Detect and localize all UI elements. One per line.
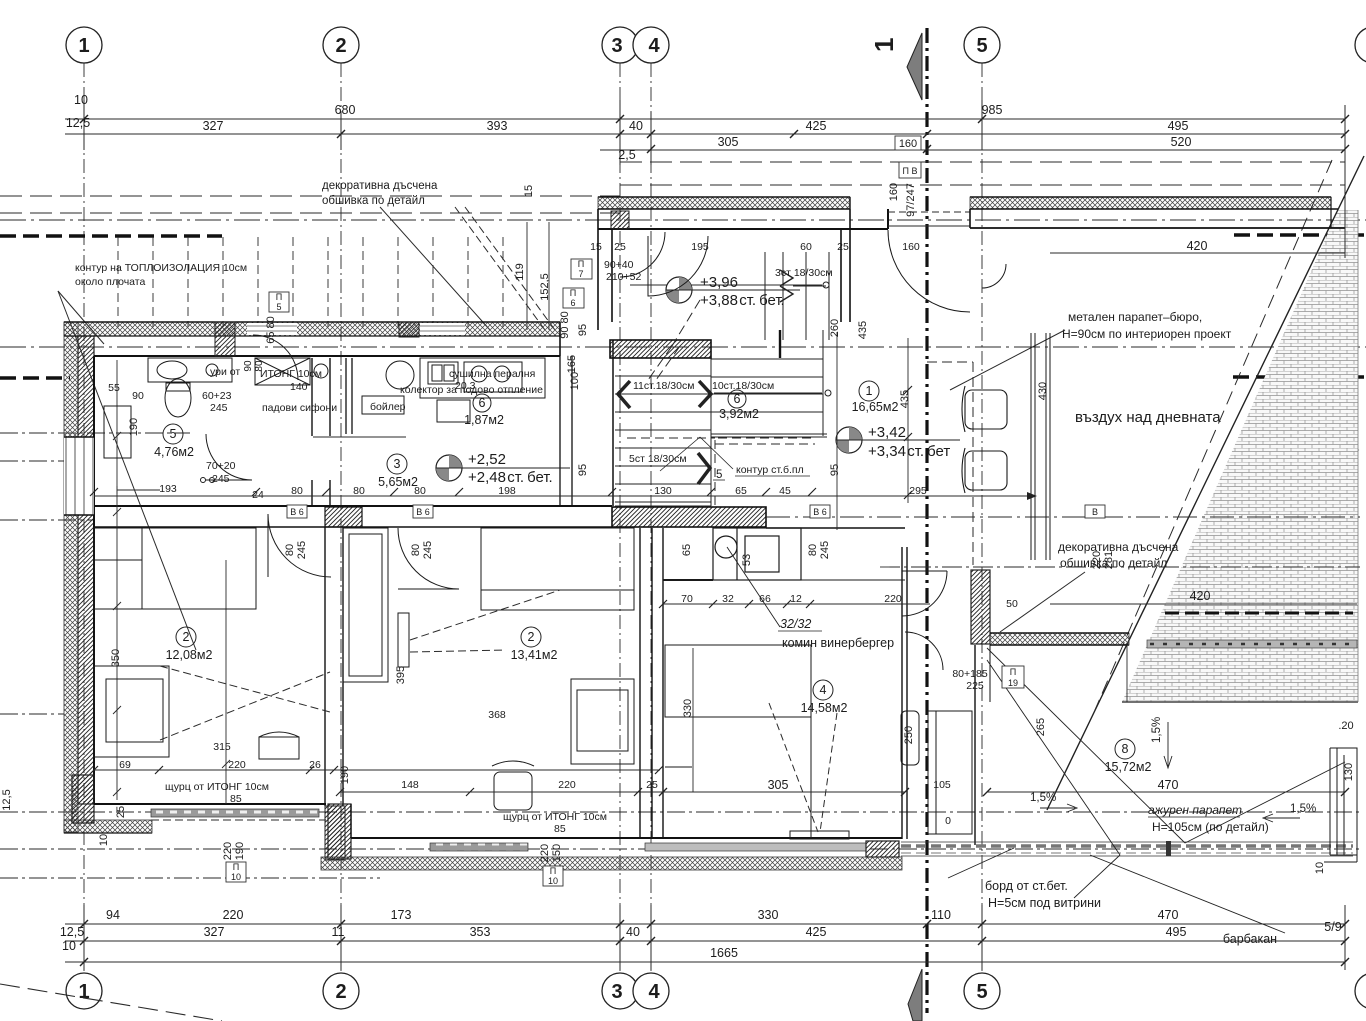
svg-text:ури от: ури от — [210, 366, 240, 378]
svg-text:350: 350 — [110, 649, 122, 667]
top-left annotation: контур на ТОПЛОИЗОЛАЦИЯ — [75, 262, 247, 288]
svg-text:430: 430 — [1037, 382, 1049, 400]
svg-text:245: 245 — [210, 402, 228, 414]
svg-text:50: 50 — [1006, 598, 1018, 610]
svg-text:470: 470 — [1158, 778, 1179, 792]
svg-text:11: 11 — [332, 925, 345, 939]
svg-text:105: 105 — [933, 779, 951, 791]
svg-text:80: 80 — [807, 544, 819, 556]
svg-text:70+20: 70+20 — [206, 460, 236, 472]
extra small bits — [243, 360, 265, 372]
svg-text:1: 1 — [78, 35, 89, 57]
left inner dim line — [113, 360, 230, 804]
svg-text:245: 245 — [212, 473, 230, 485]
305 dim room4 — [663, 791, 905, 793]
svg-text:60: 60 — [800, 241, 812, 253]
outdoor element right of section — [901, 711, 972, 834]
svg-text:декоративна дъсчена: декоративна дъсчена — [322, 180, 438, 192]
right top wall band — [970, 197, 1331, 209]
svg-text:395: 395 — [395, 666, 407, 684]
svg-text:245: 245 — [422, 541, 434, 559]
svg-text:ИТОНГ 10см: ИТОНГ 10см — [260, 368, 322, 380]
svg-text:16,65м2: 16,65м2 — [852, 400, 899, 414]
svg-text:32: 32 — [722, 593, 734, 605]
svg-text:П: П — [1010, 667, 1016, 677]
svg-text:комин винербергер: комин винербергер — [782, 636, 894, 650]
svg-text:3: 3 — [394, 457, 401, 471]
kitchenette/stair walls — [560, 356, 572, 506]
svg-text:около плочата: около плочата — [75, 276, 145, 288]
small П boxes — [226, 162, 1105, 886]
svg-text:25: 25 — [837, 241, 849, 253]
svg-text:падови сифони: падови сифони — [262, 402, 337, 414]
svg-text:щурц от ИТОНГ 10см: щурц от ИТОНГ 10см — [165, 781, 269, 793]
svg-text:65: 65 — [681, 544, 693, 556]
svg-text:+2,52: +2,52 — [468, 451, 506, 468]
svg-text:12: 12 — [790, 593, 802, 605]
1,5% marks — [1030, 717, 1316, 815]
svg-text:П: П — [276, 292, 282, 302]
svg-text:220: 220 — [223, 908, 244, 922]
thick dashed slab edge segments — [0, 235, 1364, 378]
svg-text:10: 10 — [548, 876, 558, 886]
svg-text:95: 95 — [577, 464, 589, 476]
svg-text:140: 140 — [290, 381, 308, 393]
svg-text:495: 495 — [1168, 119, 1189, 133]
svg-text:5: 5 — [976, 981, 987, 1003]
svg-text:П: П — [570, 288, 576, 298]
svg-text:295: 295 — [909, 485, 927, 497]
svg-text:225: 225 — [966, 680, 984, 692]
svg-text:борд от ст.бет.: борд от ст.бет. — [985, 879, 1068, 893]
svg-text:5ст 18/30см: 5ст 18/30см — [629, 453, 687, 465]
svg-text:173: 173 — [391, 908, 412, 922]
svg-text:+3,96: +3,96 — [700, 274, 738, 291]
svg-text:150: 150 — [551, 844, 563, 862]
svg-text:305: 305 — [718, 135, 739, 149]
svg-text:10: 10 — [231, 872, 241, 882]
svg-text:265: 265 — [1035, 718, 1047, 736]
left part — [64, 820, 152, 833]
svg-text:Н=105см (по детайл): Н=105см (по детайл) — [1152, 820, 1269, 834]
gray band right of parapet — [1147, 640, 1357, 648]
svg-text:220: 220 — [222, 842, 234, 860]
svg-text:+3,42: +3,42 — [868, 424, 906, 441]
svg-text:425: 425 — [806, 925, 827, 939]
svg-text:метален парапет–бюро,: метален парапет–бюро, — [1068, 310, 1202, 324]
svg-text:2: 2 — [335, 981, 346, 1003]
svg-text:190: 190 — [128, 418, 140, 436]
bottom-left dashed diagonal — [0, 984, 222, 1021]
svg-text:90 80: 90 80 — [559, 311, 571, 339]
svg-text:353: 353 — [470, 925, 491, 939]
svg-text:327: 327 — [203, 119, 224, 133]
svg-text:80+185: 80+185 — [952, 668, 987, 680]
svg-text:4,76м2: 4,76м2 — [154, 445, 194, 459]
room4 / entry wall — [902, 547, 907, 839]
svg-text:4: 4 — [820, 683, 827, 697]
svg-text:В: В — [1092, 507, 1098, 517]
svg-text:393: 393 — [487, 119, 508, 133]
svg-text:190: 190 — [339, 766, 351, 784]
bath right wall — [312, 358, 330, 506]
axis circles bottom — [66, 973, 1366, 1009]
svg-text:245: 245 — [819, 541, 831, 559]
svg-text:520: 520 — [1171, 135, 1192, 149]
svg-text:колектор за подово отпление: колектор за подово отпление — [400, 384, 543, 396]
rooms 2/3 separating wall — [325, 527, 343, 806]
svg-text:1: 1 — [78, 981, 89, 1003]
kitchenette row (1,87m2) — [420, 358, 545, 422]
svg-text:П В: П В — [903, 166, 918, 176]
middle-bottom wall — [351, 837, 902, 839]
svg-text:25: 25 — [115, 806, 127, 818]
hatched band under stairs — [610, 340, 711, 358]
svg-text:165: 165 — [566, 355, 578, 373]
svg-text:470: 470 — [1158, 908, 1179, 922]
svg-text:Н=5см под витрини: Н=5см под витрини — [988, 896, 1101, 910]
svg-text:Н=90см по интериорен проект: Н=90см по интериорен проект — [1062, 327, 1232, 341]
svg-text:4: 4 — [648, 35, 660, 57]
svg-text:25: 25 — [646, 779, 658, 791]
svg-text:5/9: 5/9 — [1324, 920, 1341, 934]
svg-text:190: 190 — [234, 842, 246, 860]
svg-text:5: 5 — [276, 302, 281, 312]
svg-text:3,92м2: 3,92м2 — [719, 407, 759, 421]
svg-text:160: 160 — [899, 138, 917, 150]
svg-text:97/247: 97/247 — [905, 183, 917, 217]
svg-text:90: 90 — [132, 390, 144, 402]
svg-text:11ст.18/30см: 11ст.18/30см — [633, 380, 694, 392]
svg-text:69: 69 — [119, 759, 131, 771]
svg-text:220: 220 — [228, 759, 246, 771]
svg-text:П: П — [550, 866, 556, 876]
svg-text:10: 10 — [98, 834, 110, 846]
svg-text:210+52: 210+52 — [606, 271, 641, 283]
svg-text:80: 80 — [254, 360, 265, 372]
svg-text:П: П — [578, 259, 584, 269]
svg-text:13,41м2: 13,41м2 — [511, 648, 558, 662]
right annotation: декоративна дъсчена (lower) — [1058, 540, 1179, 570]
svg-text:1,5%: 1,5% — [1290, 803, 1316, 815]
svg-text:495: 495 — [1166, 925, 1187, 939]
svg-text:декоративна дъсчена: декоративна дъсчена — [1058, 540, 1179, 554]
svg-text:195: 195 — [691, 241, 709, 253]
svg-text:305: 305 — [768, 778, 789, 792]
svg-text:281: 281 — [1103, 551, 1115, 569]
svg-text:2: 2 — [183, 630, 190, 644]
svg-text:5,65м2: 5,65м2 — [378, 475, 418, 489]
svg-text:барбакан: барбакан — [1223, 932, 1277, 946]
svg-text:160: 160 — [902, 241, 920, 253]
420 dim right top — [1050, 252, 1345, 254]
svg-text:100: 100 — [569, 372, 581, 390]
svg-text:5: 5 — [170, 427, 177, 441]
svg-text:0: 0 — [945, 815, 951, 827]
svg-text:80: 80 — [414, 485, 426, 497]
misc vertical dim lines — [94, 222, 1037, 500]
right steps — [1324, 748, 1357, 862]
stairwell top band — [598, 197, 850, 209]
svg-text:148: 148 — [401, 779, 419, 791]
svg-text:330: 330 — [758, 908, 779, 922]
svg-text:6: 6 — [570, 298, 575, 308]
stair texts — [629, 267, 833, 476]
section cut line — [925, 28, 928, 1013]
svg-text:220: 220 — [539, 844, 551, 862]
svg-text:260: 260 — [829, 319, 841, 337]
160 box top — [895, 136, 921, 150]
svg-text:24: 24 — [252, 489, 264, 501]
svg-text:40: 40 — [626, 925, 640, 939]
svg-text:10: 10 — [1314, 862, 1326, 874]
svg-text:25: 25 — [614, 241, 626, 253]
svg-text:80: 80 — [410, 544, 422, 556]
svg-text:.20: .20 — [1338, 720, 1353, 732]
svg-text:90+40: 90+40 — [604, 259, 634, 271]
svg-text:10: 10 — [74, 93, 88, 107]
svg-text:55: 55 — [108, 382, 120, 394]
svg-text:15: 15 — [590, 241, 602, 253]
diag leader through stairs — [648, 346, 672, 380]
svg-text:119: 119 — [514, 263, 526, 281]
svg-text:+3,34 ст. бет: +3,34 ст. бет — [868, 443, 950, 460]
svg-text:19: 19 — [1008, 678, 1018, 688]
svg-text:95: 95 — [577, 324, 589, 336]
rotated small dims — [1, 183, 1355, 874]
svg-text:щурц от ИТОНГ 10см: щурц от ИТОНГ 10см — [503, 811, 607, 823]
svg-text:220: 220 — [558, 779, 576, 791]
svg-text:2: 2 — [335, 35, 346, 57]
section arrow bottom — [908, 969, 922, 1021]
svg-text:15: 15 — [523, 185, 535, 197]
svg-text:198: 198 — [498, 485, 516, 497]
svg-text:330: 330 — [682, 699, 694, 717]
svg-text:160: 160 — [888, 183, 900, 201]
insulation contour dashed vertical stubs — [118, 237, 503, 327]
svg-text:П: П — [233, 862, 239, 872]
svg-text:10ст.18/30см: 10ст.18/30см — [712, 380, 774, 392]
svg-text:65: 65 — [735, 485, 747, 497]
svg-text:контур на ТОПЛОИЗОЛАЦИЯ 10см: контур на ТОПЛОИЗОЛАЦИЯ 10см — [75, 262, 247, 274]
svg-text:6: 6 — [734, 392, 741, 406]
svg-text:85: 85 — [554, 823, 566, 835]
svg-text:80: 80 — [291, 485, 303, 497]
stairwell left wall — [598, 209, 612, 330]
svg-text:12,08м2: 12,08м2 — [166, 648, 213, 662]
svg-text:14,58м2: 14,58м2 — [801, 701, 848, 715]
svg-text:В 6: В 6 — [290, 507, 304, 517]
svg-text:60+23: 60+23 — [202, 390, 232, 402]
svg-text:7: 7 — [578, 269, 583, 279]
svg-text:1: 1 — [866, 384, 873, 398]
svg-text:95: 95 — [829, 464, 841, 476]
svg-text:245: 245 — [296, 541, 308, 559]
svg-text:12,5: 12,5 — [60, 925, 84, 939]
svg-text:+3,88 ст. бет.: +3,88 ст. бет. — [700, 292, 785, 309]
svg-text:3: 3 — [611, 35, 622, 57]
top-left annotation: декоративна дъсчена обшивка — [322, 180, 438, 207]
svg-text:В 6: В 6 — [813, 507, 827, 517]
svg-text:+2,48 ст. бет.: +2,48 ст. бет. — [468, 469, 553, 486]
svg-text:1,5%: 1,5% — [1151, 717, 1163, 743]
svg-text:бойлер: бойлер — [370, 401, 406, 413]
svg-text:въздух над дневната: въздух над дневната — [1075, 409, 1221, 426]
svg-text:425: 425 — [806, 119, 827, 133]
right annotation: метален парапет — [1062, 310, 1232, 341]
svg-text:315: 315 — [213, 741, 231, 753]
svg-text:420: 420 — [1190, 589, 1211, 603]
svg-text:45: 45 — [779, 485, 791, 497]
svg-text:220: 220 — [1091, 551, 1103, 569]
svg-text:1,5%: 1,5% — [1030, 792, 1056, 804]
hatched block at window jamb — [215, 322, 235, 356]
svg-text:90: 90 — [243, 360, 254, 372]
svg-text:4: 4 — [648, 981, 660, 1003]
470 dim on terrace — [987, 791, 1345, 793]
svg-text:110: 110 — [931, 908, 951, 922]
bottom window dim lines — [94, 769, 660, 771]
svg-text:2: 2 — [528, 630, 535, 644]
svg-text:5: 5 — [716, 469, 722, 481]
svg-text:1: 1 — [869, 38, 899, 52]
svg-text:70: 70 — [681, 593, 693, 605]
svg-text:3: 3 — [611, 981, 622, 1003]
terrace leaders — [948, 648, 1345, 933]
svg-text:40: 40 — [629, 119, 643, 133]
left margin dash-dot stubs — [0, 433, 1360, 878]
svg-text:420: 420 — [1187, 239, 1208, 253]
dashed slab contour in living — [715, 438, 815, 505]
step block — [328, 804, 351, 859]
svg-text:В 6: В 6 — [416, 507, 430, 517]
svg-text:80: 80 — [353, 485, 365, 497]
dim line across rooms mid — [90, 488, 816, 496]
top wall band (left part) — [64, 322, 560, 336]
svg-text:66: 66 — [759, 593, 771, 605]
stairwell right wall — [841, 209, 850, 322]
svg-text:368: 368 — [488, 709, 506, 721]
rooms 3/4 separating wall — [640, 528, 663, 838]
svg-text:3ст 18/30см: 3ст 18/30см — [775, 267, 833, 279]
svg-text:435: 435 — [857, 321, 869, 339]
svg-text:130: 130 — [654, 485, 672, 497]
svg-text:80: 80 — [284, 544, 296, 556]
svg-text:1665: 1665 — [710, 946, 738, 960]
svg-text:250: 250 — [903, 726, 915, 744]
boiler partition — [346, 358, 352, 434]
glazing to terrace (axis5) — [1031, 333, 1050, 560]
svg-text:сушилна пералня: сушилна пералня — [449, 368, 535, 380]
stair arrows (chevrons) — [618, 381, 630, 408]
svg-text:130: 130 — [1343, 763, 1355, 781]
axis circles top — [66, 27, 1366, 63]
svg-text:220: 220 — [884, 593, 902, 605]
svg-text:85: 85 — [230, 793, 242, 805]
svg-text:контур ст.б.пл: контур ст.б.пл — [736, 464, 804, 476]
bathroom window in left wall — [64, 437, 94, 515]
entry door gap lines (x 888-970) — [888, 211, 970, 213]
svg-text:2,5: 2,5 — [618, 148, 635, 162]
svg-text:15,72м2: 15,72м2 — [1105, 760, 1152, 774]
svg-text:680: 680 — [335, 103, 356, 117]
svg-text:ажурен парапет: ажурен парапет — [1148, 803, 1242, 817]
svg-text:10: 10 — [62, 939, 76, 953]
svg-text:8: 8 — [1122, 742, 1129, 756]
svg-text:5: 5 — [976, 35, 987, 57]
section arrow top — [907, 33, 922, 100]
svg-text:12,5: 12,5 — [66, 116, 90, 130]
svg-text:53: 53 — [741, 554, 753, 566]
svg-text:435: 435 — [899, 390, 911, 408]
svg-text:985: 985 — [982, 103, 1003, 117]
svg-text:94: 94 — [106, 908, 120, 922]
svg-text:обшивка по детайл: обшивка по детайл — [322, 195, 425, 207]
left wall — [64, 322, 78, 832]
svg-text:193: 193 — [159, 483, 177, 495]
svg-text:327: 327 — [204, 925, 225, 939]
svg-text:65 80: 65 80 — [265, 316, 277, 344]
svg-text:12,5: 12,5 — [1, 789, 13, 810]
parapet wall bottom of living — [971, 570, 990, 644]
svg-text:32/32: 32/32 — [780, 617, 811, 631]
